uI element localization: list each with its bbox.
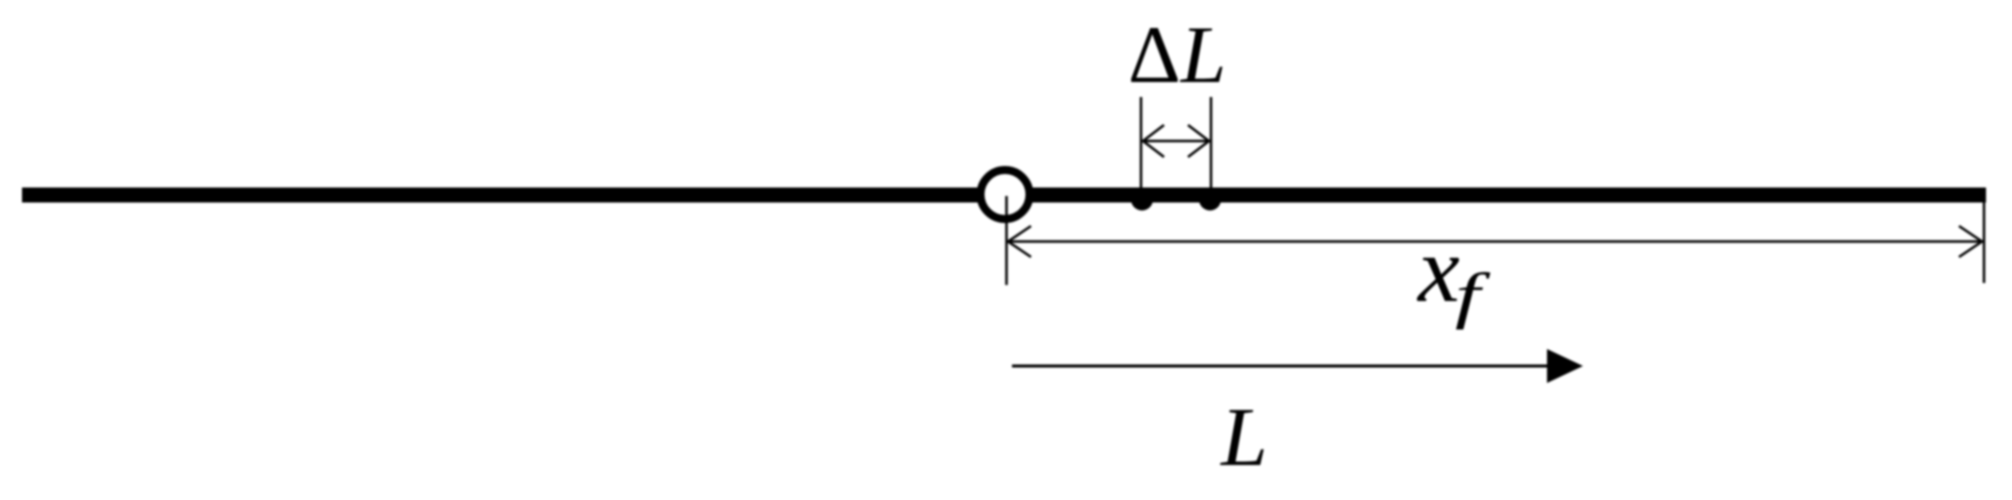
rod (thick horizontal line) <box>22 188 1986 203</box>
x_f arrowhead right <box>1959 226 1982 257</box>
svg-text:L: L <box>1220 391 1268 484</box>
svg-text:f: f <box>1455 261 1491 330</box>
dot (right mass point) <box>1199 189 1221 211</box>
L vector arrowhead <box>1547 349 1583 383</box>
tick at right end <box>1983 202 1986 283</box>
ΔL arrowhead right <box>1188 125 1209 157</box>
tick (right ΔL extension line) <box>1210 97 1213 188</box>
L vector arrow line <box>1012 365 1550 368</box>
dot (left mass point) <box>1131 189 1153 211</box>
tick (left ΔL extension line) <box>1140 97 1143 188</box>
pivot circle <box>981 170 1030 219</box>
x_f dimension line <box>1008 240 1982 243</box>
svg-text:x: x <box>1416 218 1460 322</box>
ΔL arrowhead left <box>1143 125 1164 157</box>
x_f arrowhead left <box>1008 226 1031 257</box>
svg-text:ΔL: ΔL <box>1128 9 1226 100</box>
tick below pivot <box>1005 196 1008 285</box>
ΔL double arrow line <box>1143 140 1209 143</box>
